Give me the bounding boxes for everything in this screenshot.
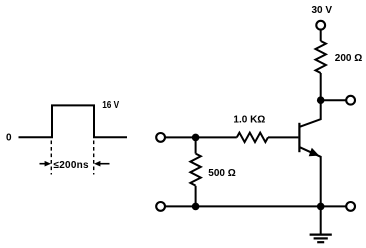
wire node A down to 500 ohm: [195, 137, 197, 153]
svg-text:200 Ω: 200 Ω: [335, 53, 362, 64]
svg-text:30 V: 30 V: [312, 5, 333, 16]
transistor Q1 emitter arrow: [309, 148, 320, 157]
svg-text:16 V: 16 V: [102, 100, 119, 111]
ground: [320, 206, 322, 234]
svg-text:0: 0: [6, 133, 12, 144]
node bottom left terminal: [156, 202, 165, 211]
node collector junction: [317, 96, 325, 104]
node base junction A: [192, 134, 200, 142]
resistor 1.0 Kohm: [237, 133, 268, 142]
node rail junction left: [192, 203, 200, 211]
svg-text:1.0 KΩ: 1.0 KΩ: [233, 115, 265, 126]
resistor 200 ohm: [316, 41, 326, 73]
node bottom right terminal: [346, 202, 355, 211]
wire collector lead: [300, 100, 321, 127]
svg-text:≤200ns: ≤200ns: [54, 160, 90, 171]
wire 500 ohm to ground rail: [195, 186, 197, 207]
wire emitter lead: [300, 147, 321, 206]
svg-text:500 Ω: 500 Ω: [208, 168, 235, 179]
wire arrow left: [40, 163, 46, 165]
node output terminal: [346, 96, 355, 105]
wire arrow right: [100, 163, 110, 165]
wire base resistor to transistor: [268, 136, 298, 138]
wire resistor to collector node: [320, 73, 322, 100]
wire dashed measurement line left: [50, 141, 52, 175]
resistor 500 ohm: [190, 154, 200, 186]
wire supply to resistor: [320, 30, 322, 41]
wire collector node to output terminal: [324, 99, 346, 101]
node terminal 30V: [316, 21, 325, 30]
wire input to base resistor: [165, 136, 237, 138]
node input terminal: [156, 133, 165, 142]
wire ground rail: [165, 205, 346, 207]
wire dashed measurement line right: [93, 141, 95, 175]
transistor Q1 base bar: [298, 123, 300, 152]
node rail junction right: [317, 203, 325, 211]
wire pulse waveform: [19, 105, 128, 137]
